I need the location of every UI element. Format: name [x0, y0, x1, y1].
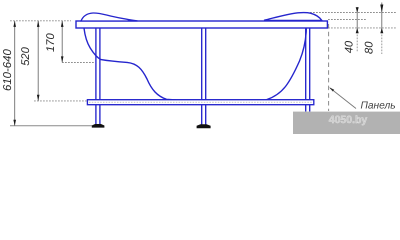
tub left wall and bottom curve	[84, 28, 176, 100]
right leg	[306, 28, 310, 112]
svg-text:40: 40	[343, 40, 355, 53]
dimension 80 line	[381, 3, 383, 29]
leader arrowhead	[329, 87, 334, 91]
panel dashed line	[328, 24, 330, 111]
extension line top (y=20.8)	[10, 20, 71, 22]
middle leg	[202, 28, 206, 125]
dimension 610-640 arrows	[13, 21, 16, 126]
middle foot	[197, 124, 211, 128]
watermark box	[293, 112, 400, 134]
dimension 40 line	[356, 7, 358, 29]
dimension 80 arrows	[380, 5, 383, 34]
tub right wall curve	[266, 28, 306, 100]
left headrest	[81, 13, 138, 21]
left leg (blue double line)	[96, 28, 100, 124]
leader line to panel	[330, 88, 356, 109]
svg-text:170: 170	[45, 33, 57, 52]
extension line C rim bottom right	[328, 27, 397, 29]
dimension 520 line	[37, 21, 39, 101]
extension line A headrest top right	[310, 12, 397, 14]
svg-text:Панель: Панель	[361, 100, 396, 111]
right headrest	[264, 13, 322, 21]
dimension 40 arrows	[356, 7, 359, 33]
extension line B rim top right	[328, 19, 367, 21]
svg-text:520: 520	[20, 46, 32, 65]
dimension 520 arrows	[37, 21, 40, 101]
bottom rail	[87, 100, 313, 105]
svg-text:610-640: 610-640	[2, 49, 14, 91]
extension line rail level (520 bottom)	[34, 100, 87, 102]
extension line seat level (170 bottom)	[62, 62, 94, 64]
svg-text:80: 80	[364, 41, 376, 54]
dimension 610-640 line	[14, 21, 16, 126]
bathtub rim	[76, 21, 327, 28]
left foot	[92, 124, 105, 128]
svg-text:4050.by: 4050.by	[329, 114, 368, 126]
floor line	[10, 125, 92, 127]
dimension 170 line	[61, 21, 63, 62]
dimension 170 arrows	[61, 21, 64, 63]
